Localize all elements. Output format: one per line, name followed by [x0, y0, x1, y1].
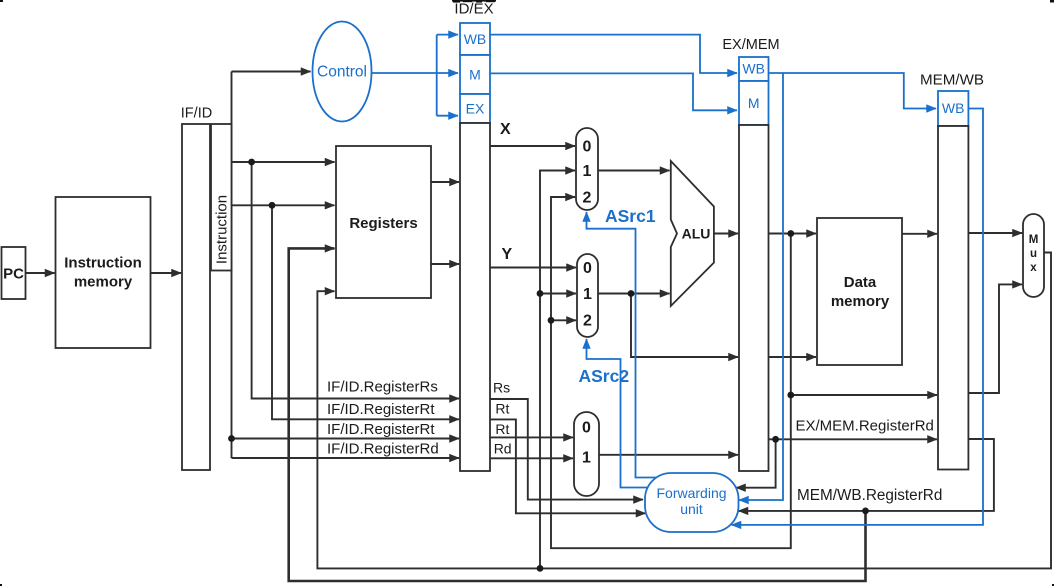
- node junction read reg 1 tap: [248, 159, 255, 166]
- svg-text:WB: WB: [464, 31, 487, 47]
- wire EX/MEM B value to Data memory write data: [769, 356, 817, 358]
- svg-text:IF/ID: IF/ID: [181, 106, 212, 122]
- node junction write-back data tap: [537, 565, 544, 572]
- svg-text:IF/ID.RegisterRt: IF/ID.RegisterRt: [327, 421, 435, 438]
- svg-text:Rs: Rs: [493, 380, 510, 396]
- wire ID/EX WB to EX/MEM WB: [490, 35, 737, 73]
- svg-text:WB: WB: [742, 61, 765, 77]
- node junction MEM/WB forward at mux2 input 1: [537, 290, 544, 297]
- svg-text:ALU: ALU: [682, 226, 711, 242]
- wire EX/MEM WB branch to forwarding unit: [739, 73, 783, 500]
- svg-text:0: 0: [583, 139, 592, 156]
- svg-text:IF/ID.RegisterRs: IF/ID.RegisterRs: [327, 379, 438, 396]
- wire instruction bus vertical (right edge of Instruction field down): [231, 72, 233, 459]
- wire PC to Instruction memory: [26, 272, 55, 274]
- svg-text:M: M: [1029, 234, 1039, 246]
- wire MEM/WB.RegisterRd to forwarding unit: [739, 439, 994, 511]
- svg-text:Forwarding: Forwarding: [656, 485, 726, 501]
- wire Registers read data 1 to ID/EX: [431, 181, 459, 183]
- svg-text:1: 1: [583, 286, 592, 303]
- svg-text:PC: PC: [3, 266, 24, 283]
- wire MEM/WB ALU result to final mux: [968, 284, 1022, 393]
- svg-text:Rt: Rt: [495, 421, 509, 437]
- Forwarding unit: [645, 473, 739, 532]
- wire IF/ID.RegisterRs into ID/EX: [252, 162, 459, 399]
- ID/EX WB box: [460, 23, 490, 55]
- wire EX/MEM.RegisterRd branch to forwarding unit: [736, 439, 776, 487]
- svg-text:Control: Control: [317, 64, 367, 81]
- corner mark bottom-right: [1052, 584, 1054, 586]
- corner mark top-left: [0, 0, 3, 2]
- Control oval: [313, 22, 372, 122]
- EX/MEM register bar: [739, 125, 769, 471]
- wire ALU result to EX/MEM: [714, 233, 738, 235]
- wire MEM/WB forward riser to mux1 input 1: [540, 171, 575, 569]
- ID/EX M box: [460, 55, 490, 94]
- svg-text:memory: memory: [74, 274, 133, 291]
- wire mux1 output to ALU: [598, 170, 670, 172]
- wire Control branch to ID/EX WB: [437, 34, 458, 36]
- wire X from ID/EX to mux1 input 0: [490, 145, 575, 147]
- svg-text:EX/MEM.RegisterRd: EX/MEM.RegisterRd: [796, 418, 934, 435]
- ID/EX register bar: [460, 123, 490, 471]
- svg-text:Rd: Rd: [494, 441, 512, 457]
- wire IF/ID.RegisterRt (2nd) into ID/EX: [232, 438, 460, 440]
- wire ASrc2 from forwarding unit to mux2 select: [587, 339, 650, 488]
- wire EX/MEM WB to MEM/WB WB: [769, 73, 937, 109]
- node junction B value tap at mux2 output: [628, 290, 635, 297]
- ALU U1: [671, 161, 714, 306]
- wire Registers read data 2 to ID/EX: [431, 263, 459, 265]
- svg-text:u: u: [1030, 248, 1037, 260]
- cropped text fragment above ID/EX: [452, 0, 496, 3]
- Registers box: [336, 146, 431, 298]
- Instruction memory box: [56, 197, 151, 348]
- wire EX/MEM ALU result to Data memory address: [769, 233, 817, 235]
- svg-text:0: 0: [583, 260, 592, 277]
- wire IF/ID.RegisterRd into ID/EX: [232, 457, 460, 459]
- node junction EX/MEM.RegisterRd tap: [772, 436, 779, 443]
- wire Control branch vertical: [436, 35, 438, 116]
- wire EX/MEM forward branch to mux2 input 2: [551, 319, 576, 321]
- wire ID/EX M to EX/MEM M: [490, 73, 737, 110]
- svg-text:MEM/WB.RegisterRd: MEM/WB.RegisterRd: [797, 487, 942, 504]
- wire B value from mux2 output into EX/MEM: [631, 294, 738, 358]
- wire MEM/WB WB to forwarding unit: [732, 109, 984, 525]
- svg-text:unit: unit: [680, 501, 703, 517]
- wire Y from ID/EX to mux2 input 0: [490, 267, 576, 269]
- node junction instruction Rt tap: [228, 435, 235, 442]
- wire Rt field to forwarding unit: [489, 419, 646, 513]
- wire IF/ID.RegisterRt into ID/EX: [272, 205, 459, 419]
- svg-text:Instruction: Instruction: [214, 195, 231, 264]
- svg-text:Registers: Registers: [349, 215, 417, 232]
- svg-text:Data: Data: [844, 274, 877, 291]
- EX/MEM WB box: [739, 57, 769, 81]
- PC box: [2, 247, 26, 299]
- svg-text:0: 0: [582, 420, 591, 437]
- svg-text:MEM/WB: MEM/WB: [920, 72, 984, 89]
- wire instruction to Registers read reg 2: [232, 204, 335, 206]
- svg-text:1: 1: [583, 163, 592, 180]
- node junction ALU result tap: [787, 230, 794, 237]
- svg-text:memory: memory: [831, 293, 890, 310]
- svg-text:Rt: Rt: [495, 401, 509, 417]
- wire MEM/WB read data to final mux: [968, 232, 1022, 234]
- wire instruction bus to Control: [232, 71, 311, 73]
- corner mark top-right: [1050, 0, 1054, 3]
- svg-text:1: 1: [582, 450, 591, 467]
- corner mark bottom-left: [0, 584, 2, 586]
- svg-text:IF/ID.RegisterRd: IF/ID.RegisterRd: [327, 441, 439, 458]
- Data memory box: [817, 218, 902, 365]
- svg-text:x: x: [1030, 262, 1037, 274]
- node junction MEM/WB.RegisterRd tap: [862, 508, 869, 515]
- svg-text:ASrc1: ASrc1: [605, 206, 656, 226]
- wire Control branch to ID/EX EX: [437, 115, 458, 117]
- wire Data memory read data to MEM/WB: [902, 233, 937, 235]
- Instruction field box: [211, 124, 232, 271]
- wire instruction to Registers read reg 1: [232, 161, 335, 163]
- wire Instruction memory to IF/ID: [151, 272, 182, 274]
- node junction ALU result bypass tap: [787, 392, 794, 399]
- svg-text:M: M: [748, 95, 760, 111]
- wire write register number back to Registers: [289, 248, 866, 581]
- svg-text:EX/MEM: EX/MEM: [722, 37, 779, 53]
- svg-text:ID/EX: ID/EX: [454, 1, 493, 18]
- wire Control output to ID/EX M: [372, 72, 459, 74]
- mux3 (write register select): [574, 412, 599, 496]
- svg-text:IF/ID.RegisterRt: IF/ID.RegisterRt: [327, 401, 435, 418]
- svg-text:ASrc2: ASrc2: [579, 366, 630, 386]
- svg-text:WB: WB: [942, 100, 965, 116]
- svg-text:M: M: [469, 67, 481, 83]
- EX/MEM M box: [739, 81, 769, 125]
- wire Rt field to mux3 input 0: [489, 436, 573, 438]
- svg-text:2: 2: [583, 190, 592, 207]
- svg-text:X: X: [500, 121, 511, 138]
- wire ASrc1 from forwarding unit to mux1 select: [587, 212, 658, 478]
- wire Rd field to mux3 input 1: [489, 457, 573, 459]
- wire ALU result bypass to MEM/WB: [791, 394, 937, 396]
- svg-text:EX: EX: [466, 101, 485, 117]
- svg-text:Instruction: Instruction: [64, 255, 142, 272]
- wire EX/MEM forward riser to mux input 2: [551, 197, 791, 548]
- WIRES-BLACK: [372, 35, 984, 525]
- wire mux3 output write register number to EX/MEM: [599, 454, 738, 456]
- final mux (write-back): [1023, 214, 1044, 297]
- svg-text:2: 2: [583, 313, 592, 330]
- node junction read reg 2 tap: [269, 202, 276, 209]
- wire write-back data from final mux to Registers write data: [317, 253, 1051, 569]
- mux2 (forward B): [577, 254, 598, 337]
- ID/EX EX box: [460, 94, 490, 123]
- wire MEM/WB forward branch to mux2 input 1: [540, 293, 576, 295]
- wire mux2 output to ALU: [598, 293, 670, 295]
- wire EX/MEM.RegisterRd to MEM/WB: [769, 438, 938, 440]
- svg-text:Y: Y: [502, 246, 513, 263]
- mux1 (forward A): [576, 128, 598, 210]
- BOXES: [228, 159, 869, 572]
- IF/ID register bar: [181, 106, 212, 471]
- node junction EX/MEM forward at mux2 input 2: [548, 317, 555, 324]
- wire Rs field to forwarding unit: [489, 399, 643, 500]
- MEM/WB register bar: [938, 126, 968, 470]
- MEM/WB WB box: [938, 91, 968, 126]
